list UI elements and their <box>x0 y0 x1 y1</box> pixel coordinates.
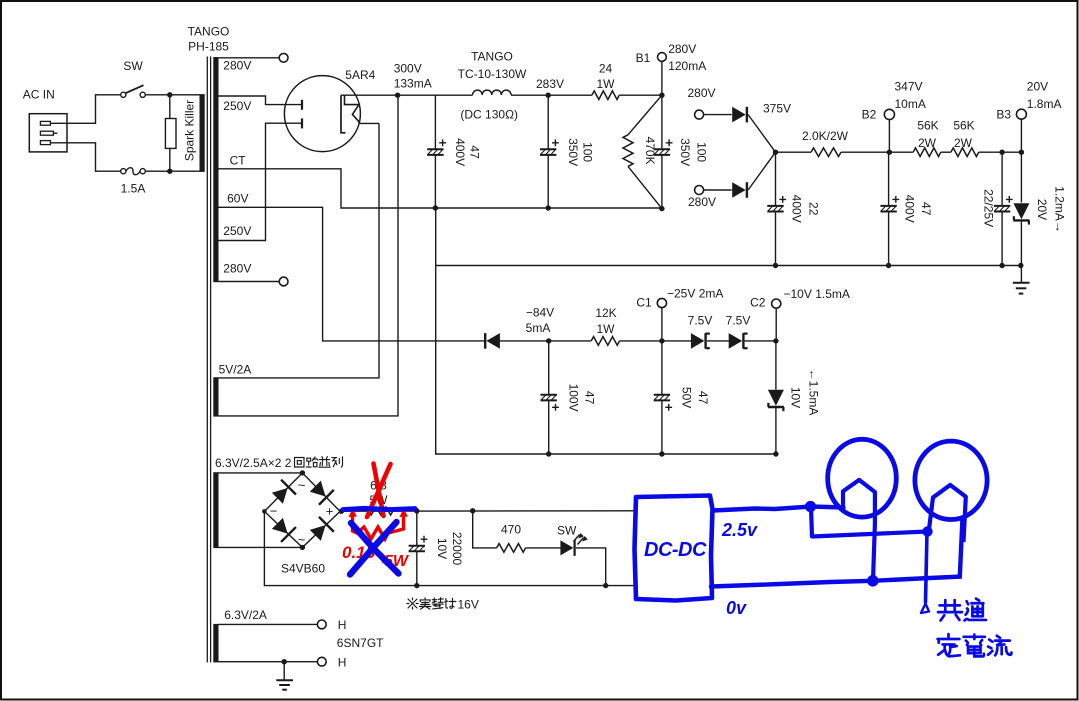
svg-text:0v: 0v <box>726 598 747 618</box>
fuse 1.5A <box>121 168 146 175</box>
label note jisso wa 16V <box>458 598 479 612</box>
spark killer snubber <box>165 95 176 171</box>
DC-DC converter block <box>635 496 713 601</box>
label 6.3V/2.5A winding (kanji drawn) <box>215 456 292 470</box>
diode bias rectifier <box>485 333 549 349</box>
label DC 130 ohm <box>460 108 518 122</box>
label 280V 120mA <box>668 42 706 73</box>
svg-text:22: 22 <box>807 202 821 216</box>
transformer 6.3V/2A winding <box>213 624 218 663</box>
svg-text:5mA: 5mA <box>526 321 551 335</box>
label 280V upper <box>688 86 716 100</box>
label 47 400V B2 <box>903 195 934 223</box>
blue cross-out X over red resistor <box>350 522 399 575</box>
svg-text:2.5v: 2.5v <box>721 520 758 540</box>
svg-text:12K: 12K <box>595 306 616 320</box>
capacitor 47uF 100V <box>541 338 559 454</box>
label 56K 2W second <box>953 119 974 151</box>
svg-text:100V: 100V <box>567 384 581 412</box>
svg-text:1W: 1W <box>597 322 616 336</box>
svg-text:47: 47 <box>919 202 933 216</box>
svg-text:22000: 22000 <box>450 532 464 566</box>
svg-text:B3: B3 <box>996 108 1011 122</box>
svg-text:280V: 280V <box>223 262 251 276</box>
label 22 400V <box>790 195 821 223</box>
capacitor 100uF 350V second filter <box>540 93 559 209</box>
blue junction dot 0V tube1 <box>867 575 879 587</box>
svg-text:470K: 470K <box>643 137 657 165</box>
tap 60V wire down to bias rectifier <box>219 207 485 341</box>
blue label kyoutsu (common) <box>938 599 986 621</box>
capacitor 22000uF 10V <box>409 508 428 588</box>
svg-text:20V: 20V <box>1027 80 1048 94</box>
tap 6.3V top wire and terminal H <box>219 620 327 629</box>
svg-text:133mA: 133mA <box>394 77 432 91</box>
terminal C1 <box>657 298 666 341</box>
svg-text:7.5V: 7.5V <box>688 314 713 328</box>
label 250V upper <box>223 99 251 113</box>
svg-text:B1: B1 <box>636 51 651 65</box>
svg-text:350V: 350V <box>678 138 692 166</box>
label 280V bottom <box>223 262 251 276</box>
label AC IN <box>23 88 55 102</box>
svg-text:47: 47 <box>583 391 597 405</box>
label B2 <box>862 108 877 122</box>
svg-text:120mA: 120mA <box>668 59 706 73</box>
svg-text:TANGO: TANGO <box>471 50 513 64</box>
label 12K 1W <box>595 306 616 336</box>
label 20V 1.8mA <box>1027 80 1062 112</box>
label 7.5V second <box>726 314 751 328</box>
red hand-drawn resistor 0.15 ohm bypass <box>349 509 409 540</box>
transformer 6.3V/2.5A winding <box>213 472 218 548</box>
label 60V <box>227 192 248 206</box>
blue junction dot tube1 input <box>805 501 816 512</box>
blue tube 1 filament <box>843 480 875 581</box>
node 375V <box>773 150 778 155</box>
svg-text:TANGO: TANGO <box>188 25 230 39</box>
svg-text:SW: SW <box>123 59 143 73</box>
svg-text:5AR4: 5AR4 <box>345 68 375 82</box>
capacitor 100uF 350V third filter <box>654 95 673 208</box>
svg-text:10V: 10V <box>788 387 802 408</box>
label -84V 5mA <box>526 306 555 336</box>
tube filament <box>345 95 360 123</box>
svg-text:(DC 130Ω): (DC 130Ω) <box>460 108 518 122</box>
label 22/25V <box>982 189 996 227</box>
label 250V lower <box>223 224 251 238</box>
wire AC hot to switch <box>50 95 120 124</box>
label 283V <box>536 77 564 91</box>
label kanji jissou wa (actually 16V) with reference mark <box>407 598 456 609</box>
svg-text:56K: 56K <box>953 119 974 133</box>
svg-text:10V: 10V <box>435 538 449 559</box>
svg-text:−84V: −84V <box>526 306 554 320</box>
tap 250V lower wire to plate 2 <box>219 123 302 240</box>
label 1.5A <box>121 182 146 196</box>
wire switch to transformer <box>145 92 199 97</box>
svg-text:280V: 280V <box>223 59 251 73</box>
label CT <box>230 153 247 167</box>
wire fuse to transformer <box>145 169 199 174</box>
svg-text:100: 100 <box>581 142 595 162</box>
svg-text:DC-DC: DC-DC <box>644 539 707 561</box>
svg-text:22/25V: 22/25V <box>982 189 996 227</box>
label 2.0K/2W <box>802 129 849 143</box>
svg-text:60V: 60V <box>227 192 248 206</box>
svg-text:SW: SW <box>557 524 577 538</box>
label 7.5V first <box>688 314 713 328</box>
wire bridge plus output <box>339 509 634 514</box>
svg-text:24: 24 <box>599 61 613 75</box>
wire filament bottom lead <box>359 122 379 124</box>
svg-text:20V: 20V <box>1035 199 1049 220</box>
label C2 <box>750 296 766 310</box>
svg-text:2W: 2W <box>918 136 937 150</box>
tube cathode sleeve <box>341 95 346 133</box>
tap 5V top wire to cathode <box>219 123 380 378</box>
B2 B3 ground rail <box>436 208 1024 268</box>
tap 250V upper wire to plate 1 <box>219 96 302 105</box>
svg-text:47: 47 <box>696 391 710 405</box>
terminal B2 <box>884 109 894 152</box>
label S4VB60 <box>281 561 325 575</box>
svg-text:1.2mA→: 1.2mA→ <box>1053 186 1067 233</box>
label 300V 133mA <box>394 62 432 91</box>
svg-text:10mA: 10mA <box>895 97 926 111</box>
tap CT wire to ground rail <box>219 169 662 208</box>
blue wire 2.5V output to tube 1 <box>713 507 844 511</box>
zener diode 10V vertical <box>768 338 784 454</box>
label 100 350V <box>566 138 595 166</box>
wire 6.3V winding to bridge AC top <box>219 472 303 474</box>
label 5AR4 <box>345 68 375 82</box>
red label 0.15 / 5W handwritten <box>342 543 410 570</box>
svg-text:C1: C1 <box>636 296 652 310</box>
blue wire down to tube2 filament <box>811 507 928 537</box>
label 470 <box>501 523 521 537</box>
svg-text:B2: B2 <box>862 108 877 122</box>
zener diode 7.5V first <box>662 333 710 349</box>
svg-text:~: ~ <box>298 478 306 493</box>
blue junction dot tube2 input <box>922 526 932 536</box>
svg-text:47: 47 <box>468 145 482 159</box>
wire AC neutral to fuse <box>50 143 120 171</box>
svg-text:6.3V/2A: 6.3V/2A <box>224 608 267 622</box>
svg-text:−10V 1.5mA: −10V 1.5mA <box>784 287 850 301</box>
label H top <box>338 618 347 632</box>
svg-text:7.5V: 7.5V <box>726 314 751 328</box>
svg-text:~: ~ <box>298 532 306 547</box>
svg-text:283V: 283V <box>536 77 564 91</box>
label B1 <box>636 51 651 65</box>
label 6SN7GT <box>337 636 384 650</box>
ground symbol right <box>1013 266 1030 294</box>
tap 280V bottom wire and terminal <box>219 277 289 286</box>
resistor 12K 1W <box>549 337 662 346</box>
label 280V lower <box>688 195 716 209</box>
svg-text:Spark Killer: Spark Killer <box>183 100 197 161</box>
svg-text:280V: 280V <box>668 42 696 56</box>
terminal C2 <box>772 299 781 341</box>
svg-text:5V/2A: 5V/2A <box>219 362 252 376</box>
switch SW <box>121 85 146 97</box>
svg-text:100: 100 <box>695 142 709 162</box>
ground symbol heater <box>276 662 293 690</box>
svg-text:←1.5mA: ←1.5mA <box>806 369 820 416</box>
blue wire 0V output <box>711 518 963 587</box>
svg-text:375V: 375V <box>763 102 791 116</box>
label 24 1W <box>597 61 616 91</box>
svg-text:16V: 16V <box>458 598 479 612</box>
svg-text:PH-185: PH-185 <box>188 40 229 54</box>
label 5V/2A <box>219 362 252 376</box>
label -25V 2mA <box>667 287 723 301</box>
bridge rectifier S4VB60 <box>262 470 340 550</box>
label H bottom <box>338 656 347 670</box>
label 1.5mA arrow <box>806 369 820 416</box>
svg-text:250V: 250V <box>223 224 251 238</box>
tap 6.3V bottom wire and terminal H <box>219 657 327 666</box>
capacitor 22uF 25V <box>994 150 1013 266</box>
terminal 280V upper diode input <box>695 110 732 119</box>
blue label teidenryuu (constant current) <box>938 634 1012 656</box>
transformer T1 label TANGO PH-185 <box>188 25 230 54</box>
svg-text:280V: 280V <box>688 195 716 209</box>
tube plate 2 <box>301 118 303 128</box>
capacitor 22uF 400V <box>767 152 786 265</box>
svg-text:+: + <box>326 504 334 519</box>
svg-text:400V: 400V <box>903 195 917 223</box>
svg-text:50V: 50V <box>680 387 694 408</box>
zener diode 20V <box>1013 150 1029 266</box>
terminal B1 <box>658 53 667 96</box>
diode D1 <box>732 107 775 152</box>
resistor 470 LED branch <box>470 508 560 552</box>
capacitor 47uF 50V <box>654 338 672 454</box>
label TANGO TC-10-130W <box>458 50 527 82</box>
wire 6.3V winding to bridge AC bottom <box>219 546 303 548</box>
label C1 <box>636 296 652 310</box>
svg-text:6.3V/2.5A×2 2: 6.3V/2.5A×2 2 <box>215 456 292 470</box>
svg-text:56K: 56K <box>917 119 938 133</box>
svg-text:H: H <box>338 656 347 670</box>
svg-text:1.8mA: 1.8mA <box>1027 97 1062 111</box>
label kanji 2kairo heiretsu (parallel circuits) <box>295 457 343 468</box>
resistor crossed out 6.8 5W <box>364 479 393 516</box>
label 47 50V <box>680 387 710 408</box>
tap 5V bottom wire to B+ takeoff <box>219 95 399 416</box>
label DC-DC handwritten <box>644 539 707 561</box>
svg-text:1W: 1W <box>597 77 616 91</box>
svg-text:AC IN: AC IN <box>23 88 55 102</box>
label 47 100V <box>567 384 597 412</box>
svg-text:CT: CT <box>230 153 247 167</box>
label 20V zener <box>1035 199 1049 220</box>
label 470K <box>643 137 657 165</box>
blue tube 2 envelope <box>915 441 987 519</box>
tap 280V top wire and terminal <box>219 53 289 62</box>
svg-text:C2: C2 <box>750 296 766 310</box>
rectifier tube V1 5AR4 envelope <box>284 76 360 152</box>
svg-text:347V: 347V <box>895 80 923 94</box>
blue wire to common constant current terminal <box>921 532 929 614</box>
negative supply bottom rail <box>436 266 779 457</box>
blue short wire over crossed resistor <box>343 508 415 509</box>
svg-text:2W: 2W <box>954 136 973 150</box>
choke TANGO TC-10-130W <box>435 90 548 95</box>
label 347V 10mA <box>895 80 926 112</box>
transformer core <box>207 57 210 663</box>
blue tube 2 filament <box>929 485 966 542</box>
label B3 <box>996 108 1011 122</box>
svg-text:1.5A: 1.5A <box>121 182 146 196</box>
label 1.2mA arrow <box>1053 186 1067 233</box>
label 0V <box>726 598 747 618</box>
svg-text:400V: 400V <box>453 138 467 166</box>
svg-text:−: − <box>270 504 278 519</box>
label 280V top <box>223 59 251 73</box>
AC inlet connector <box>29 114 67 152</box>
svg-text:2.0K/2W: 2.0K/2W <box>802 129 849 143</box>
ground rail junction dots <box>433 205 665 211</box>
svg-text:280V: 280V <box>688 86 716 100</box>
wire cathode top rail <box>341 93 435 98</box>
label 100 350V second <box>678 138 708 166</box>
label 56K 2W first <box>917 119 938 151</box>
label 6.3V/2A <box>224 608 267 622</box>
resistor 24 1W <box>548 91 662 100</box>
blue tube 1 envelope <box>828 439 897 517</box>
transformer 5V winding <box>213 377 218 416</box>
capacitor 47uF 400V first filter <box>427 95 446 208</box>
svg-text:470: 470 <box>501 523 521 537</box>
tube plate 1 <box>301 100 303 110</box>
label 10V zener <box>788 387 802 408</box>
svg-text:350V: 350V <box>566 138 580 166</box>
svg-text:S4VB60: S4VB60 <box>281 561 325 575</box>
label Spark Killer <box>183 100 197 161</box>
svg-text:−25V 2mA: −25V 2mA <box>667 287 723 301</box>
svg-text:250V: 250V <box>223 99 251 113</box>
label SW <box>123 59 143 73</box>
capacitor 47uF 400V B2 <box>880 150 899 266</box>
resistor 56K 2W second <box>941 148 1022 157</box>
label SW LED <box>557 524 577 538</box>
LED SW indicator <box>560 533 608 588</box>
label 2.5V <box>721 520 758 540</box>
terminal B3 <box>1016 109 1026 152</box>
label -10V 1.5mA <box>784 287 850 301</box>
red cross-out X over 6.8 5W <box>367 464 391 518</box>
svg-text:H: H <box>338 618 347 632</box>
resistor 2.0K/2W <box>776 148 890 157</box>
label 375V <box>763 102 791 116</box>
svg-text:400V: 400V <box>790 195 804 223</box>
resistor 470K bleeder <box>623 93 665 209</box>
label 22000 10V <box>435 532 464 566</box>
diode D2 <box>732 152 775 198</box>
transformer HV secondary winding <box>213 57 218 282</box>
label 47 400V <box>453 138 482 166</box>
transformer primary winding <box>200 94 205 172</box>
wire bridge minus to 0V rail <box>264 511 634 585</box>
svg-text:300V: 300V <box>394 62 422 76</box>
svg-text:TC-10-130W: TC-10-130W <box>458 67 527 81</box>
resistor 56K 2W first <box>889 148 940 157</box>
terminal 280V lower diode input <box>695 186 732 195</box>
zener diode 7.5V second <box>707 333 776 349</box>
svg-text:6SN7GT: 6SN7GT <box>337 636 384 650</box>
